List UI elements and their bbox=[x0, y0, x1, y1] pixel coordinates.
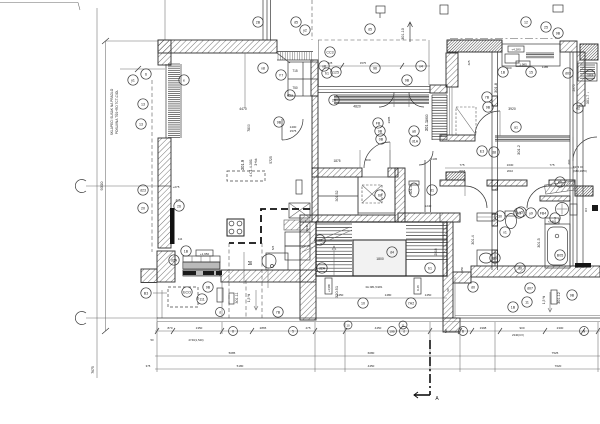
terrace left edge bbox=[156, 282, 158, 330]
bottom circled 11 bbox=[399, 321, 407, 329]
cabinet boxes column bbox=[285, 232, 310, 246]
dash-dot roof right bbox=[450, 38, 560, 40]
dimension line left x105 bbox=[105, 41, 107, 331]
shaft lines above top wall bbox=[262, 0, 264, 40]
kitchen counter ladder bbox=[183, 262, 219, 269]
svg-text:1B: 1B bbox=[501, 70, 506, 74]
callout top 15 bbox=[329, 95, 339, 105]
svg-text:0B: 0B bbox=[379, 137, 384, 141]
cooktop bbox=[227, 219, 244, 236]
callout B3 leader bbox=[141, 288, 151, 298]
svg-text:5/6: 5/6 bbox=[444, 329, 448, 333]
svg-text:1480: 1480 bbox=[385, 293, 392, 297]
door arc bedroom right bbox=[419, 151, 433, 165]
wall left exterior upper bbox=[158, 40, 171, 65]
entry closet rooms bbox=[288, 62, 318, 96]
wall stairwell left bbox=[300, 222, 316, 320]
dryer dashed box bbox=[456, 107, 476, 135]
callout top 7 bbox=[416, 61, 426, 71]
svg-text:775: 775 bbox=[459, 163, 464, 167]
wall corridor right x570 bbox=[569, 52, 571, 266]
svg-text:301.11: 301.11 bbox=[235, 292, 239, 303]
svg-text:13: 13 bbox=[141, 102, 145, 106]
svg-text:d0: d0 bbox=[471, 285, 475, 289]
svg-text:D-05: D-05 bbox=[416, 285, 420, 291]
callout d23 left bbox=[138, 185, 148, 195]
callout top 6 bbox=[402, 75, 412, 85]
svg-text:2B: 2B bbox=[256, 20, 261, 24]
wall corner right-unit bbox=[446, 53, 458, 87]
label box 1985 bbox=[516, 61, 530, 67]
label box kitchen low bbox=[217, 288, 223, 302]
toilet 301.3 bbox=[409, 183, 419, 197]
top-left corner mark bbox=[78, 3, 80, 11]
callout top 12 bbox=[276, 70, 286, 80]
line above left wall bbox=[164, 0, 166, 40]
callout top 4 bbox=[331, 67, 341, 77]
wall bedroom bottom right bbox=[388, 168, 398, 177]
dim row corridor bbox=[445, 167, 575, 169]
svg-text:FB: FB bbox=[376, 121, 381, 125]
svg-text:d2A: d2A bbox=[319, 266, 326, 270]
dashed rect living bbox=[227, 171, 265, 181]
wall entry vertical bbox=[311, 60, 318, 96]
svg-text:301.2: 301.2 bbox=[516, 144, 521, 155]
svg-text:d5: d5 bbox=[294, 20, 298, 24]
axis bubble B left bbox=[75, 312, 158, 325]
svg-text:475: 475 bbox=[305, 326, 310, 330]
callout K mid bbox=[511, 122, 521, 132]
svg-text:4450: 4450 bbox=[368, 364, 375, 368]
label box kk1 bbox=[296, 180, 302, 194]
callout d2A kitchen bbox=[169, 255, 179, 265]
terrace stub left bbox=[221, 282, 223, 318]
door arc corridor right bbox=[573, 137, 597, 161]
callout top 14 bbox=[285, 90, 295, 100]
svg-text:a1: a1 bbox=[514, 125, 518, 129]
window top-mid blinds bbox=[334, 95, 429, 104]
svg-text:525: 525 bbox=[271, 245, 275, 250]
svg-text:4.C1.4-301: 4.C1.4-301 bbox=[249, 159, 253, 177]
svg-text:9B: 9B bbox=[206, 285, 211, 289]
svg-text:B3: B3 bbox=[144, 291, 148, 295]
dashed line x312 top bbox=[311, 0, 313, 40]
terrace small box bbox=[505, 54, 519, 63]
svg-text:2905: 2905 bbox=[387, 116, 391, 123]
svg-text:1240: 1240 bbox=[425, 204, 432, 208]
label +2465 bbox=[545, 218, 559, 224]
right mid callouts bbox=[555, 177, 565, 187]
terrace bottom edge2 bbox=[455, 315, 600, 317]
svg-text:9: 9 bbox=[554, 216, 556, 220]
svg-text:30: 30 bbox=[498, 214, 502, 218]
svg-text:9B: 9B bbox=[378, 129, 383, 133]
door arc bedroom left bbox=[364, 142, 390, 168]
svg-text:1575: 1575 bbox=[290, 129, 297, 133]
svg-text:2010: 2010 bbox=[507, 169, 514, 173]
label box 301.12 bbox=[551, 290, 557, 304]
svg-text:301.10: 301.10 bbox=[401, 28, 405, 40]
svg-text:d23: d23 bbox=[140, 188, 146, 192]
svg-text:+275: +275 bbox=[173, 185, 180, 189]
wall stub x440 y213 bbox=[440, 213, 460, 222]
dim line y69 bbox=[120, 68, 165, 70]
svg-text:1185: 1185 bbox=[542, 65, 549, 69]
svg-text:50: 50 bbox=[150, 338, 154, 342]
entry threshold ladder bbox=[278, 52, 312, 60]
callout d8 bbox=[489, 147, 499, 157]
svg-text:425: 425 bbox=[467, 60, 471, 65]
svg-text:750: 750 bbox=[292, 86, 298, 90]
wall block right edge dark bbox=[580, 44, 598, 60]
room 301.8 left wall lines bbox=[449, 87, 451, 135]
bottom callouts right bbox=[468, 282, 478, 292]
callout 1B kitchen bbox=[181, 246, 191, 256]
window top-mid frame bbox=[318, 87, 430, 93]
svg-text:115: 115 bbox=[584, 207, 588, 212]
svg-text:d07: d07 bbox=[527, 286, 533, 290]
dashed line x262 down bbox=[261, 243, 263, 318]
svg-text:69: 69 bbox=[493, 256, 497, 260]
svg-text:y1: y1 bbox=[131, 78, 135, 82]
lintel dark left bbox=[446, 172, 465, 180]
callout 20 left bbox=[138, 203, 148, 213]
callout 6b left bbox=[128, 75, 138, 85]
left dim tick bottom bbox=[102, 328, 109, 334]
svg-text:1350: 1350 bbox=[196, 326, 203, 330]
callout stairs 6 bbox=[315, 235, 325, 245]
cabinet hatch box bbox=[284, 220, 310, 230]
svg-text:1450: 1450 bbox=[460, 266, 464, 273]
shaft X box bbox=[362, 185, 382, 203]
wall top-left exterior bbox=[158, 40, 277, 53]
wall corridor y136 right bbox=[495, 136, 570, 140]
svg-text:9B: 9B bbox=[405, 78, 410, 82]
svg-text:1B: 1B bbox=[184, 249, 189, 253]
svg-text:1630: 1630 bbox=[507, 163, 514, 167]
terrace door arcs bbox=[379, 92, 394, 107]
svg-text:301.7 ↓: 301.7 ↓ bbox=[586, 92, 590, 105]
svg-text:444: 444 bbox=[178, 237, 183, 241]
dashed line x246 down bbox=[245, 280, 247, 318]
kitchen black bar bbox=[170, 208, 175, 244]
door arc corridor d1 bbox=[465, 186, 487, 208]
svg-text:9B: 9B bbox=[277, 120, 282, 124]
stair dims bottom bbox=[316, 297, 447, 299]
top mark L3 bbox=[376, 6, 385, 13]
top mark right bbox=[553, 5, 563, 12]
svg-text:d1: d1 bbox=[430, 188, 434, 192]
svg-text:12: 12 bbox=[524, 20, 528, 24]
svg-text:1,985: 1,985 bbox=[519, 63, 527, 67]
svg-text:d8: d8 bbox=[492, 150, 496, 154]
callout col bedroom bbox=[373, 118, 383, 128]
svg-text:2865: 2865 bbox=[260, 326, 267, 330]
svg-text:2740(1,540): 2740(1,540) bbox=[188, 338, 203, 342]
bottom dim chain 2 bbox=[155, 355, 600, 357]
axis bubble A left bbox=[75, 180, 158, 193]
callout top 10 bbox=[300, 25, 310, 35]
svg-text:20: 20 bbox=[141, 206, 145, 210]
bottom dim chain 1 bbox=[155, 330, 600, 332]
callout top 3 bbox=[319, 61, 329, 71]
wall corridor x425 bbox=[424, 160, 426, 212]
axis line vertical left bbox=[96, 8, 98, 378]
svg-text:d: d bbox=[219, 310, 221, 314]
callout 26 kitchen bbox=[174, 201, 184, 211]
callout top 2 bbox=[325, 47, 335, 57]
terrace stub right bbox=[454, 277, 456, 318]
terrace side extension right bbox=[428, 40, 430, 85]
wall unit separation x492 bbox=[491, 52, 493, 270]
svg-text:d9: d9 bbox=[318, 238, 322, 242]
callout stairs 2 bbox=[406, 298, 416, 308]
bottom circled 8 bbox=[229, 327, 238, 336]
svg-text:13: 13 bbox=[139, 122, 143, 126]
svg-text:1450: 1450 bbox=[337, 293, 344, 297]
svg-text:4450: 4450 bbox=[375, 326, 382, 330]
bottom callouts left bbox=[182, 287, 192, 297]
svg-text:9B: 9B bbox=[486, 105, 491, 109]
svg-text:9B: 9B bbox=[556, 31, 561, 35]
svg-text:1,5 %: 1,5 % bbox=[542, 296, 546, 304]
dashed line x229 down bbox=[228, 243, 230, 318]
stair arrow bbox=[333, 246, 335, 276]
svg-text:ECO: ECO bbox=[183, 290, 191, 294]
fixture box right edge bbox=[578, 63, 597, 81]
svg-text:375: 375 bbox=[146, 364, 151, 368]
callout top 11 bbox=[258, 63, 268, 73]
svg-text:1998: 1998 bbox=[480, 326, 487, 330]
svg-text:1B: 1B bbox=[511, 305, 516, 309]
svg-text:d2A: d2A bbox=[171, 258, 178, 262]
window left (ladder) bbox=[168, 64, 180, 138]
svg-text:a6: a6 bbox=[412, 129, 416, 133]
svg-text:2340(CX): 2340(CX) bbox=[512, 333, 524, 337]
wall mid horizontal right bbox=[471, 266, 600, 277]
callout a6 bedroom bbox=[409, 126, 419, 136]
stair diagonal line bbox=[302, 230, 352, 252]
door jambs bedroom bbox=[359, 150, 361, 168]
callout stairs 5 bbox=[425, 263, 435, 273]
shaft room bbox=[358, 177, 395, 213]
label box stairs R bbox=[414, 278, 421, 294]
svg-text:301.1: 301.1 bbox=[424, 120, 429, 131]
callout 9B r bbox=[483, 102, 493, 112]
svg-text:x8: x8 bbox=[322, 64, 326, 68]
svg-text:M: M bbox=[248, 261, 254, 265]
svg-text:B: B bbox=[462, 329, 464, 333]
svg-text:x1: x1 bbox=[503, 230, 507, 234]
elevator shaft bbox=[353, 240, 406, 276]
svg-text:870: 870 bbox=[167, 326, 172, 330]
kitchen label box bbox=[196, 250, 213, 256]
dashed rect terrace bbox=[168, 287, 198, 307]
section line A bbox=[429, 340, 431, 395]
bath callouts bbox=[490, 253, 500, 263]
toilet corner right bbox=[556, 203, 569, 216]
bottom circled 5 bbox=[289, 327, 298, 336]
bottom circled d bbox=[388, 327, 397, 336]
callout d terrace bbox=[216, 308, 225, 317]
svg-text:103: 103 bbox=[587, 73, 593, 77]
svg-text:2940: 2940 bbox=[305, 224, 309, 231]
svg-text:1800: 1800 bbox=[376, 257, 384, 261]
callout e living bbox=[179, 75, 189, 85]
svg-text:301.12: 301.12 bbox=[557, 292, 561, 304]
top-left margin line bbox=[0, 2, 78, 4]
bottom dim chain 3 bbox=[155, 368, 600, 370]
wall closet left bbox=[312, 168, 318, 222]
callout stairs 1 bbox=[358, 298, 368, 308]
bottom extension lines bbox=[156, 322, 158, 372]
door arc corridor top bbox=[475, 111, 500, 136]
svg-text:7620: 7620 bbox=[555, 364, 562, 368]
callout 68 shaft bbox=[375, 190, 385, 200]
svg-text:x4: x4 bbox=[419, 64, 423, 68]
svg-text:8: 8 bbox=[232, 329, 234, 333]
svg-text:1145: 1145 bbox=[431, 157, 438, 161]
wall left corner block bbox=[157, 251, 175, 282]
bottom circled N bbox=[580, 327, 589, 336]
right edge callouts bbox=[563, 68, 573, 78]
callout top 13 bbox=[322, 68, 332, 78]
svg-text:301.4: 301.4 bbox=[471, 235, 475, 245]
callout 13b left bbox=[136, 119, 146, 129]
wall pier top-mid bbox=[430, 85, 447, 93]
terrace dim line y66 bbox=[318, 65, 430, 67]
wall right exterior lines bbox=[576, 106, 578, 268]
left wall break bbox=[158, 185, 171, 187]
svg-text:Ro:981,5/281: Ro:981,5/281 bbox=[366, 285, 383, 289]
kitchen counter ladder row2 bbox=[183, 270, 219, 276]
callout stairs 3 bbox=[317, 263, 327, 273]
svg-text:4470: 4470 bbox=[239, 107, 247, 111]
svg-text:+4,280: +4,280 bbox=[511, 48, 521, 52]
kitchen counter boxes top bbox=[183, 256, 220, 262]
svg-text:1,5 %: 1,5 % bbox=[247, 294, 251, 302]
svg-text:1450: 1450 bbox=[425, 293, 432, 297]
svg-text:d03: d03 bbox=[565, 71, 571, 75]
callout 9B living bbox=[274, 117, 284, 127]
entry niche diagonal bbox=[277, 53, 290, 63]
bottom callouts mid bbox=[273, 307, 283, 317]
svg-text:301.5: 301.5 bbox=[537, 238, 541, 248]
section arrow A bbox=[414, 394, 430, 396]
svg-text:500: 500 bbox=[365, 158, 370, 162]
terrace side extension left bbox=[318, 40, 320, 86]
bottom circled 10 bbox=[344, 321, 352, 329]
hatch ramp right bbox=[544, 181, 575, 194]
black dash right bbox=[592, 205, 598, 211]
svg-text:7B: 7B bbox=[276, 310, 281, 314]
svg-text:715: 715 bbox=[292, 69, 298, 73]
svg-text:5725: 5725 bbox=[269, 156, 273, 164]
svg-text:y9: y9 bbox=[529, 211, 533, 215]
callout 6 left bbox=[141, 69, 151, 79]
svg-text:301.9: 301.9 bbox=[240, 159, 245, 170]
svg-text:B05: B05 bbox=[557, 253, 563, 257]
callout d1A bedroom bbox=[410, 136, 420, 146]
kitchen heavy dashed L bbox=[229, 209, 310, 243]
svg-text:SKLAPECI SUSAK NA PRADLO: SKLAPECI SUSAK NA PRADLO bbox=[110, 88, 114, 135]
svg-text:+1,950: +1,950 bbox=[200, 252, 210, 256]
svg-text:d5: d5 bbox=[368, 27, 372, 31]
wall stairwell corner bottom bbox=[443, 318, 460, 332]
svg-text:15: 15 bbox=[529, 70, 533, 74]
terrace box top-right bbox=[502, 44, 560, 66]
svg-text:2300: 2300 bbox=[557, 326, 564, 330]
svg-text:9B: 9B bbox=[570, 293, 575, 297]
top right callouts2 bbox=[498, 67, 508, 77]
svg-text:1800: 1800 bbox=[425, 114, 429, 121]
bathtub 301.5 bbox=[545, 224, 570, 268]
exterior stair ladder bbox=[432, 95, 447, 139]
svg-text:d5a: d5a bbox=[287, 93, 293, 97]
svg-text:d0: d0 bbox=[518, 266, 522, 270]
lintel dark right bbox=[575, 186, 593, 196]
svg-text:600: 600 bbox=[567, 159, 571, 164]
svg-text:7B: 7B bbox=[485, 95, 490, 99]
wall stairwell top bbox=[398, 213, 460, 222]
washbasin 301.4 bbox=[477, 250, 495, 266]
wall y180 right unit bbox=[440, 180, 465, 186]
wall bedroom left bbox=[312, 96, 318, 168]
svg-text:90: 90 bbox=[446, 288, 450, 292]
svg-text:10: 10 bbox=[346, 323, 350, 327]
svg-text:7675: 7675 bbox=[91, 366, 95, 374]
bottom circled e bbox=[400, 327, 409, 336]
wall right exterior hatch bbox=[577, 52, 585, 106]
svg-text:775: 775 bbox=[549, 163, 554, 167]
svg-text:(980,2970): (980,2970) bbox=[573, 169, 587, 173]
svg-text:2970: 2970 bbox=[572, 84, 576, 91]
stair upper landing bbox=[316, 222, 447, 240]
svg-text:10B: 10B bbox=[389, 329, 394, 333]
top mark A section bbox=[440, 5, 448, 14]
svg-text:2018: 2018 bbox=[459, 169, 466, 173]
terrace label +4280 bbox=[508, 46, 524, 52]
wall piece x540 y196 bbox=[540, 196, 570, 201]
callout E3 bbox=[477, 146, 487, 156]
dim tick y69 bbox=[135, 66, 141, 72]
svg-text:26: 26 bbox=[177, 204, 181, 208]
svg-text:4820: 4820 bbox=[353, 105, 361, 109]
svg-text:10: 10 bbox=[361, 301, 365, 305]
wall vertical x395 bbox=[395, 168, 405, 222]
callout 7B r bbox=[482, 92, 492, 102]
svg-text:b1: b1 bbox=[325, 71, 329, 75]
svg-text:FB4: FB4 bbox=[540, 211, 547, 215]
svg-text:d4: d4 bbox=[390, 250, 394, 254]
wall bedroom bottom left bbox=[312, 168, 362, 177]
callout top 1 bbox=[365, 24, 375, 34]
svg-text:26: 26 bbox=[332, 98, 336, 102]
svg-text:25: 25 bbox=[544, 25, 548, 29]
stair flight left bbox=[316, 224, 352, 272]
svg-text:A9: A9 bbox=[517, 211, 521, 215]
svg-text:900: 900 bbox=[519, 326, 524, 330]
bottom circled B bbox=[459, 327, 468, 336]
extension line x245 bbox=[244, 53, 246, 108]
toilet 301.4 bbox=[506, 214, 517, 229]
svg-text:d1A: d1A bbox=[412, 139, 419, 143]
svg-text:POSUVNA TŠS+RD TCT-C/OL: POSUVNA TŠS+RD TCT-C/OL bbox=[114, 90, 119, 134]
svg-text:111: 111 bbox=[199, 297, 204, 301]
svg-text:+4,980: +4,980 bbox=[327, 283, 331, 292]
svg-text:1875: 1875 bbox=[333, 159, 340, 163]
kitchen dark blobs bbox=[183, 271, 196, 275]
